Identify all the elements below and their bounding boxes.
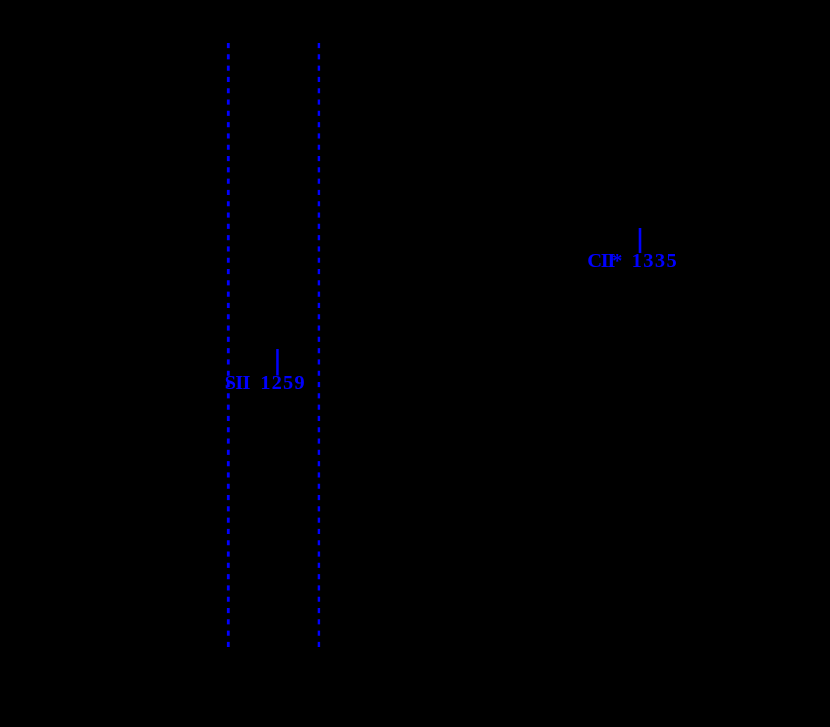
svg-text:*: * — [612, 250, 622, 272]
svg-text:1259: 1259 — [260, 372, 306, 394]
SII 1259 tick marker — [276, 349, 279, 376]
svg-text:1335: 1335 — [632, 250, 679, 272]
dashed velocity-limit line left — [227, 43, 230, 648]
CII* 1335 label — [587, 250, 678, 272]
SII 1259 label — [225, 372, 306, 394]
CII* 1335 tick marker — [639, 228, 642, 253]
dashed velocity-limit line right — [318, 43, 320, 648]
svg-text:SII: SII — [225, 372, 251, 394]
